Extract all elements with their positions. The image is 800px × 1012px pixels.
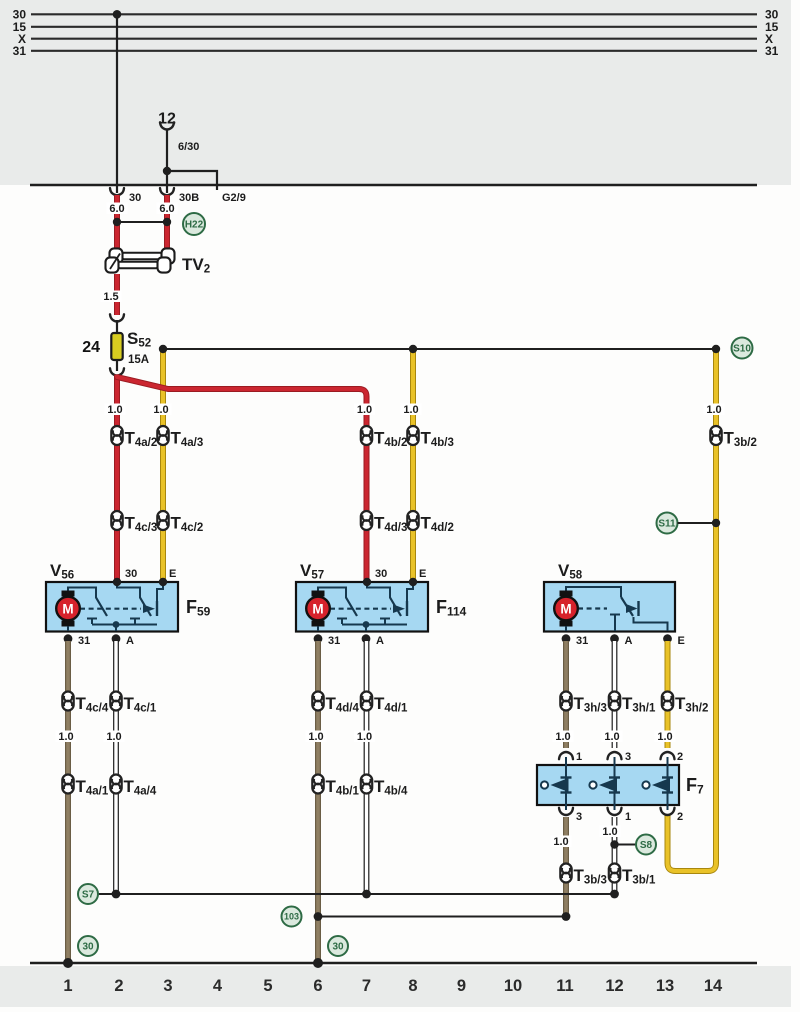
svg-text:1.0: 1.0 [602,826,617,838]
svg-text:15A: 15A [128,354,149,366]
svg-text:5: 5 [263,977,272,995]
svg-text:E: E [169,568,176,580]
svg-text:1.0: 1.0 [107,404,122,416]
svg-text:30: 30 [125,568,137,580]
svg-text:A: A [625,635,633,647]
svg-text:24: 24 [82,339,100,356]
svg-text:S8: S8 [640,840,653,851]
svg-text:10: 10 [504,977,522,995]
svg-text:1.0: 1.0 [553,836,568,848]
svg-text:30B: 30B [179,192,199,204]
svg-text:1.0: 1.0 [706,404,721,416]
svg-text:11: 11 [556,977,573,995]
svg-text:1.0: 1.0 [106,731,121,743]
svg-text:6/30: 6/30 [178,141,199,153]
svg-text:M: M [560,601,571,616]
svg-text:S11: S11 [658,519,676,530]
svg-text:9: 9 [457,977,466,995]
svg-text:31: 31 [78,635,90,647]
svg-text:1.0: 1.0 [555,731,570,743]
svg-text:3: 3 [163,977,172,995]
svg-text:1.0: 1.0 [604,731,619,743]
svg-text:1: 1 [576,751,582,763]
svg-text:1.0: 1.0 [357,404,372,416]
svg-text:1: 1 [63,977,72,995]
svg-text:30: 30 [332,942,344,953]
svg-text:1: 1 [625,811,631,823]
svg-text:H22: H22 [185,220,204,231]
svg-text:1.0: 1.0 [308,731,323,743]
svg-text:A: A [376,635,384,647]
svg-text:14: 14 [704,977,723,995]
svg-text:31: 31 [576,635,588,647]
svg-text:A: A [126,635,134,647]
svg-text:6.0: 6.0 [109,203,124,215]
svg-text:E: E [419,568,426,580]
svg-text:M: M [312,601,323,616]
svg-text:E: E [678,635,685,647]
svg-text:8: 8 [408,977,417,995]
svg-text:1.0: 1.0 [357,731,372,743]
svg-text:S7: S7 [82,890,95,901]
svg-text:2: 2 [677,751,683,763]
svg-text:G2/9: G2/9 [222,192,246,204]
svg-text:M: M [62,601,73,616]
svg-text:30: 30 [375,568,387,580]
svg-text:31: 31 [328,635,340,647]
svg-text:1.0: 1.0 [657,731,672,743]
svg-text:31: 31 [13,44,27,58]
svg-text:3: 3 [576,811,582,823]
svg-text:2: 2 [677,811,683,823]
svg-text:S10: S10 [733,344,751,355]
svg-text:31: 31 [765,44,779,58]
svg-text:6: 6 [313,977,322,995]
svg-text:7: 7 [362,977,371,995]
svg-text:2: 2 [114,977,123,995]
svg-text:1.0: 1.0 [153,404,168,416]
svg-text:6.0: 6.0 [159,203,174,215]
svg-text:1.0: 1.0 [403,404,418,416]
svg-text:30: 30 [82,942,94,953]
svg-text:1.5: 1.5 [103,291,118,303]
svg-text:13: 13 [656,977,674,995]
svg-text:4: 4 [213,977,223,995]
svg-text:30: 30 [129,192,141,204]
svg-text:3: 3 [625,751,631,763]
svg-text:103: 103 [284,912,299,922]
svg-text:1.0: 1.0 [58,731,73,743]
svg-text:12: 12 [605,977,623,995]
